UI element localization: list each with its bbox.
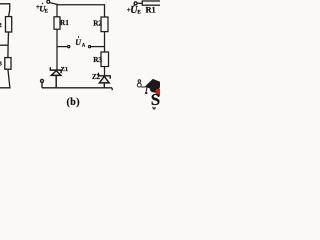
svg-text:Z2: Z2 (92, 74, 101, 81)
svg-text:Z1: Z1 (61, 66, 68, 73)
svg-text:w: w (152, 107, 156, 110)
svg-text:(b): (b) (67, 97, 80, 108)
svg-text:2: 2 (0, 22, 2, 29)
svg-text:A: A (82, 44, 86, 49)
svg-text:R3: R3 (93, 56, 102, 64)
svg-text:E: E (45, 9, 48, 14)
svg-text:R1: R1 (146, 5, 156, 14)
svg-text:R2: R2 (93, 20, 102, 28)
svg-text:R1: R1 (60, 19, 69, 27)
